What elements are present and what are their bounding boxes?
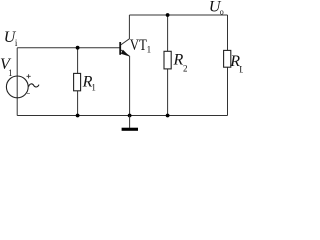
svg-text:i: i — [15, 38, 18, 48]
svg-text:R: R — [173, 51, 184, 68]
svg-text:2: 2 — [183, 64, 188, 74]
svg-text:o: o — [220, 8, 224, 17]
svg-text:1: 1 — [91, 82, 96, 92]
svg-text:1: 1 — [147, 44, 152, 54]
svg-text:VT: VT — [130, 37, 147, 54]
svg-text:L: L — [239, 64, 243, 74]
svg-text:1: 1 — [8, 68, 13, 78]
